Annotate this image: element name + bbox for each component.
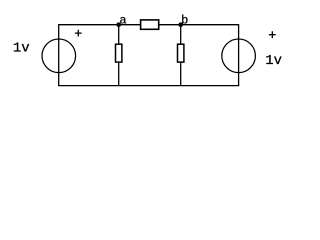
wire stub node a to R1 top	[118, 25, 120, 45]
voltage source V1 circle	[42, 39, 76, 73]
svg-text:1v: 1v	[13, 40, 30, 56]
svg-text:a: a	[119, 13, 126, 27]
resistor R3 (horizontal between a and b)	[141, 20, 159, 29]
wire left vertical (through V1)	[58, 24, 60, 86]
wire right vertical (through V2)	[238, 24, 240, 86]
svg-text:b: b	[181, 13, 188, 27]
wire stub R2 bottom to bottom wire	[180, 62, 182, 86]
voltage source V2 circle	[222, 39, 256, 73]
plus sign V1	[75, 30, 82, 37]
resistor R1 (left vertical)	[116, 44, 122, 62]
wire top-left segment (left corner to R3 left)	[59, 24, 140, 26]
wire bottom	[58, 85, 239, 87]
plus sign V2	[269, 31, 276, 38]
node a junction dot	[116, 22, 121, 27]
wire stub node b to R2 top	[180, 25, 182, 45]
resistor R2 (right vertical)	[178, 44, 184, 62]
wire stub R1 bottom to bottom wire	[118, 62, 120, 86]
svg-text:1v: 1v	[265, 53, 282, 69]
node b junction dot	[178, 22, 183, 27]
wire top-right segment (R3 right to right corner)	[159, 24, 238, 26]
